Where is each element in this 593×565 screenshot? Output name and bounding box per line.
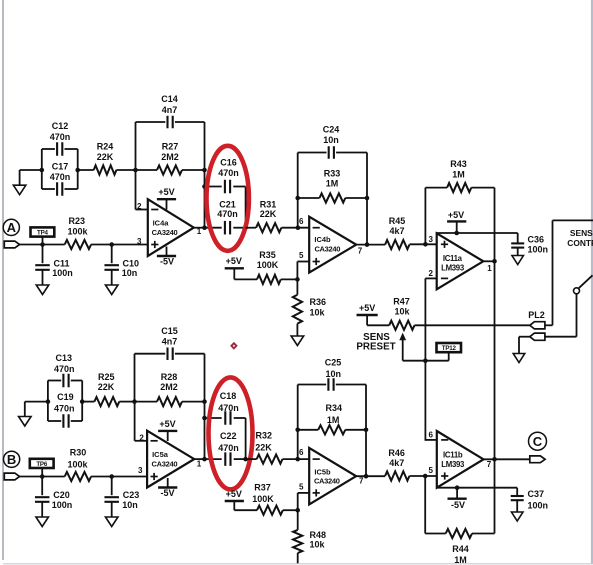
junction IC11b output xyxy=(492,457,497,462)
connector PL2 pin 1 xyxy=(530,322,545,329)
svg-text:IC4b: IC4b xyxy=(314,235,331,244)
junction R35/R36 xyxy=(295,277,300,282)
wire R33 right xyxy=(345,197,367,199)
junction B/C20 xyxy=(40,474,45,479)
ground below C20 xyxy=(36,517,49,527)
junction C21 right xyxy=(243,225,248,230)
IC5b pin 7 label xyxy=(359,477,364,486)
IC11a labels xyxy=(441,254,465,273)
resistor R48 xyxy=(293,530,302,553)
R25 labels xyxy=(98,372,115,392)
svg-text:CONTRO: CONTRO xyxy=(567,238,593,248)
svg-text:PL2: PL2 xyxy=(528,310,545,320)
C12 labels xyxy=(50,121,71,142)
svg-text:6: 6 xyxy=(299,448,304,457)
IC5b labels xyxy=(314,467,340,485)
svg-text:R28: R28 xyxy=(161,372,178,382)
svg-text:LM393: LM393 xyxy=(441,460,465,469)
junction wiper/reference xyxy=(423,358,428,363)
wire R30 to IC5a pin3 xyxy=(91,476,147,478)
page border right xyxy=(591,0,593,564)
op-amp IC5b xyxy=(309,448,356,505)
svg-text:PRESET: PRESET xyxy=(356,341,395,352)
svg-text:2M2: 2M2 xyxy=(161,152,179,162)
svg-text:2M2: 2M2 xyxy=(160,382,178,392)
svg-text:22K: 22K xyxy=(255,442,272,452)
R46 labels xyxy=(388,448,405,468)
IC4a pin 3 label xyxy=(137,237,142,246)
svg-text:A: A xyxy=(7,220,17,235)
svg-text:-5V: -5V xyxy=(160,257,174,267)
capacitor C14 xyxy=(136,116,205,170)
IC5a pin 2 label xyxy=(139,434,144,443)
R34 labels xyxy=(326,403,343,425)
svg-text:+5V: +5V xyxy=(158,187,174,197)
IC11b pin 5 label xyxy=(429,466,434,475)
wire R28 to right node xyxy=(182,401,205,403)
svg-text:10n: 10n xyxy=(323,135,339,145)
junction IC5b pin6 xyxy=(295,457,300,462)
svg-text:100n: 100n xyxy=(528,245,549,255)
R33 labels xyxy=(324,169,341,189)
junction IC4a output xyxy=(202,225,207,230)
junction C10 node xyxy=(109,242,114,247)
svg-text:4k7: 4k7 xyxy=(389,458,404,468)
capacitor C23 xyxy=(104,477,119,518)
resistor R31 xyxy=(256,223,281,232)
svg-text:100n: 100n xyxy=(52,500,73,510)
red circle highlight C16/C21 xyxy=(207,146,249,251)
junction R27 right xyxy=(202,168,207,173)
wire reference vertical xyxy=(424,278,426,440)
capacitor C25 xyxy=(298,378,366,476)
junction +5V rail xyxy=(454,231,459,236)
test point TP4 xyxy=(31,227,55,244)
IC4b pin 5 label xyxy=(299,251,304,260)
ground below C37 xyxy=(511,512,523,521)
svg-text:C12: C12 xyxy=(52,121,69,131)
resistor R32 xyxy=(257,455,283,464)
svg-text:2: 2 xyxy=(139,434,144,443)
sens control box edge xyxy=(553,220,593,325)
svg-text:IC5a: IC5a xyxy=(152,450,169,459)
wire R45 to pin3 xyxy=(409,243,436,245)
R32 labels xyxy=(255,430,272,452)
wire R34 left xyxy=(298,429,319,431)
svg-text:CA3240: CA3240 xyxy=(152,459,178,468)
IC5b plus xyxy=(313,489,320,496)
wire R24 to node xyxy=(116,169,135,171)
svg-text:R25: R25 xyxy=(98,372,115,382)
svg-text:R36: R36 xyxy=(310,297,327,307)
wire +5V rail to C36 xyxy=(437,232,518,234)
R23 labels xyxy=(67,216,88,236)
svg-text:3: 3 xyxy=(137,237,142,246)
wire IC11b pin6 xyxy=(425,439,436,441)
svg-text:470n: 470n xyxy=(218,168,239,178)
svg-text:C24: C24 xyxy=(323,125,340,135)
wire R32 to pin6 xyxy=(283,458,310,460)
svg-text:C18: C18 xyxy=(220,391,237,401)
wire IC11a pin2 xyxy=(425,277,436,279)
svg-text:R37: R37 xyxy=(254,482,271,492)
R30 labels xyxy=(67,448,88,470)
wire comparator bus xyxy=(494,261,496,459)
IC11b -5V supply xyxy=(448,488,467,511)
svg-text:1M: 1M xyxy=(452,170,465,180)
switch contact xyxy=(574,275,593,294)
wire R37 to junction xyxy=(283,509,298,511)
wire C12/C17 to R24 xyxy=(78,169,94,171)
IC5a labels xyxy=(152,450,178,468)
resistor R23 xyxy=(65,240,91,249)
capacitor C19 xyxy=(48,414,82,428)
svg-text:LM393: LM393 xyxy=(441,263,465,272)
R36 labels xyxy=(310,297,327,317)
page border left xyxy=(2,0,4,560)
resistor R24 xyxy=(94,165,117,174)
IC4a plus xyxy=(151,241,158,248)
ground below C36 xyxy=(512,256,524,265)
IC4b pin 6 label xyxy=(299,217,304,226)
wire IC11a output xyxy=(483,260,494,262)
IC4a -5V supply xyxy=(157,247,176,267)
svg-text:100n: 100n xyxy=(528,500,549,510)
svg-text:C15: C15 xyxy=(161,326,178,336)
svg-text:C25: C25 xyxy=(325,358,342,368)
R44 labels xyxy=(452,544,469,565)
IC4b labels xyxy=(314,235,340,254)
ground at C13/C19 xyxy=(19,417,32,427)
test point TP6 xyxy=(30,459,54,477)
test point TP12 xyxy=(437,343,462,361)
IC11b pin 7 label xyxy=(487,460,492,469)
IC5b minus xyxy=(313,458,320,460)
capacitor C15 xyxy=(135,347,205,401)
IC5a pin 1 label xyxy=(197,459,202,468)
resistor R37 xyxy=(257,506,283,515)
svg-text:1M: 1M xyxy=(454,555,467,565)
svg-text:R46: R46 xyxy=(388,448,405,458)
wire R25 to node xyxy=(119,401,134,403)
svg-text:+5V: +5V xyxy=(448,210,464,220)
svg-text:10n: 10n xyxy=(122,268,138,278)
svg-text:C: C xyxy=(533,434,543,449)
junction R37/R48 xyxy=(295,508,300,513)
capacitor C17 xyxy=(42,182,78,196)
svg-text:R23: R23 xyxy=(69,216,86,226)
capacitor C20 xyxy=(35,477,50,518)
C19 labels xyxy=(54,392,75,413)
red circle highlight C18/C22 xyxy=(209,377,253,489)
svg-text:7: 7 xyxy=(359,477,364,486)
svg-text:CA3240: CA3240 xyxy=(314,244,340,253)
svg-text:5: 5 xyxy=(429,466,434,475)
IC11a +5V supply xyxy=(447,210,466,233)
svg-text:CA3240: CA3240 xyxy=(152,228,178,237)
svg-text:IC5b: IC5b xyxy=(314,467,331,476)
wire PL2 pin2 to ground xyxy=(519,337,530,354)
svg-text:R32: R32 xyxy=(256,430,273,440)
svg-text:CA3240: CA3240 xyxy=(314,477,340,486)
page border bottom xyxy=(3,563,593,565)
junction IC11b pin5 xyxy=(423,474,428,479)
R31 labels xyxy=(260,200,277,219)
svg-text:C13: C13 xyxy=(56,353,73,363)
capacitor C11 xyxy=(35,245,50,286)
wire node to R27 xyxy=(136,169,158,171)
ground below PL2 xyxy=(513,354,525,363)
svg-text:C22: C22 xyxy=(220,431,237,441)
IC5a minus xyxy=(151,440,158,442)
node C xyxy=(529,432,547,450)
resistor R36 xyxy=(293,295,302,324)
svg-text:-5V: -5V xyxy=(160,488,174,498)
IC11a minus xyxy=(441,277,448,279)
C23 labels xyxy=(122,490,139,510)
ground at C12/C17 xyxy=(13,185,26,195)
IC11b labels xyxy=(441,450,465,469)
svg-text:1M: 1M xyxy=(326,179,339,189)
svg-text:22K: 22K xyxy=(97,152,114,162)
svg-text:7: 7 xyxy=(487,460,492,469)
svg-text:R35: R35 xyxy=(259,250,276,260)
resistor R34 xyxy=(318,425,345,434)
junction R25/R28/C15 xyxy=(132,399,137,404)
svg-text:5: 5 xyxy=(299,251,304,260)
IC5b pin 5 label xyxy=(299,482,304,491)
svg-text:R43: R43 xyxy=(450,159,467,169)
svg-text:R33: R33 xyxy=(324,169,341,179)
svg-text:470n: 470n xyxy=(218,443,239,453)
junction C23 node xyxy=(109,474,114,479)
svg-text:C11: C11 xyxy=(53,258,69,268)
svg-text:+5V: +5V xyxy=(226,256,242,266)
junction R34 right xyxy=(364,428,369,433)
op-amp IC4b xyxy=(309,217,356,273)
wire C13/C19 to R25 xyxy=(82,401,94,403)
junction R34 left xyxy=(295,428,300,433)
junction C16 tap xyxy=(202,184,207,189)
R37 labels xyxy=(252,482,274,504)
C16 labels xyxy=(218,158,239,178)
svg-text:10k: 10k xyxy=(394,306,410,316)
IC5a plus xyxy=(151,473,158,480)
wire R23 to IC4a pin3 xyxy=(91,244,148,246)
svg-text:R24: R24 xyxy=(97,142,114,152)
wire IC4b pin5 xyxy=(297,262,309,280)
wire ground to C12/C17 left xyxy=(20,170,42,185)
R24 labels xyxy=(97,142,114,163)
svg-text:C20: C20 xyxy=(53,490,70,500)
wire IC11b output xyxy=(484,458,530,460)
wire C21 to R31 xyxy=(246,227,257,229)
svg-text:TP6: TP6 xyxy=(36,461,48,468)
svg-text:-5V: -5V xyxy=(451,500,465,510)
IC5a -5V supply xyxy=(158,478,177,498)
svg-text:1: 1 xyxy=(487,264,492,273)
IC11a pin 1 label xyxy=(487,264,492,273)
SENS PRESET label xyxy=(356,332,395,352)
svg-text:10k: 10k xyxy=(310,539,326,549)
IC4a minus xyxy=(151,209,158,211)
capacitor C10 xyxy=(104,245,119,286)
svg-text:1: 1 xyxy=(197,459,202,468)
svg-text:+5V: +5V xyxy=(226,489,242,499)
svg-text:R27: R27 xyxy=(162,142,179,152)
svg-text:R47: R47 xyxy=(393,297,410,307)
resistor R43 loop xyxy=(425,188,494,262)
wire R35 to junction xyxy=(281,278,298,280)
svg-text:100K: 100K xyxy=(257,260,279,270)
svg-text:R34: R34 xyxy=(326,403,343,413)
junction C12/C17 left xyxy=(40,168,45,173)
wire -5V rail to C37 xyxy=(437,487,517,489)
wire IC5b pin5 xyxy=(298,493,310,510)
R27 labels xyxy=(161,142,179,163)
resistor R25 xyxy=(94,397,119,406)
ground below C10 xyxy=(105,285,118,295)
svg-text:SENSIT: SENSIT xyxy=(570,228,593,238)
wire R31 to pin6 xyxy=(281,227,309,229)
op-amp IC11b xyxy=(437,431,484,488)
R35 +5V supply xyxy=(225,256,257,279)
svg-text:IC11b: IC11b xyxy=(443,450,463,459)
capacitor C24 xyxy=(298,146,367,244)
svg-text:10n: 10n xyxy=(325,369,341,379)
svg-text:TP4: TP4 xyxy=(37,229,49,236)
svg-text:C37: C37 xyxy=(528,489,545,499)
IC4b plus xyxy=(313,258,320,265)
wire IC5a pin2 xyxy=(135,402,148,441)
svg-text:2: 2 xyxy=(429,269,434,278)
svg-text:3: 3 xyxy=(138,466,143,475)
wire R33 left xyxy=(298,197,320,199)
C11 labels xyxy=(52,258,73,278)
junction IC4b output xyxy=(365,242,370,247)
R37 +5V supply xyxy=(225,489,257,510)
IC4b minus xyxy=(313,227,320,229)
svg-text:R45: R45 xyxy=(389,216,406,226)
wire R46 to pin5 xyxy=(409,475,436,477)
R47 +5V supply xyxy=(357,303,390,325)
wire PL2 pin1 to box xyxy=(545,324,552,326)
svg-text:C19: C19 xyxy=(57,392,74,402)
svg-text:470n: 470n xyxy=(54,404,75,414)
svg-text:4n7: 4n7 xyxy=(162,105,178,115)
C37 labels xyxy=(528,489,549,510)
capacitor C37 xyxy=(511,488,524,512)
svg-text:470n: 470n xyxy=(218,403,239,413)
C20 labels xyxy=(52,490,73,510)
svg-text:IC11a: IC11a xyxy=(443,254,463,263)
junction IC5b output xyxy=(364,474,369,479)
resistor R27 xyxy=(157,165,182,174)
wire R36 to ground xyxy=(296,324,298,336)
svg-text:100k: 100k xyxy=(67,227,88,237)
R47 wiper arrow xyxy=(399,333,448,361)
R45 labels xyxy=(389,216,406,236)
IC4a labels xyxy=(152,219,178,237)
svg-text:470n: 470n xyxy=(50,172,71,182)
junction C13/C19 right xyxy=(80,399,85,404)
svg-text:R30: R30 xyxy=(70,448,87,458)
IC11b plus xyxy=(441,472,448,479)
svg-text:C23: C23 xyxy=(123,490,140,500)
svg-text:7: 7 xyxy=(358,247,363,256)
svg-text:C14: C14 xyxy=(161,94,178,104)
junction -5V rail xyxy=(455,485,460,490)
svg-text:100k: 100k xyxy=(67,459,88,469)
wire junction to R36 xyxy=(296,279,298,294)
resistor R47 xyxy=(389,321,414,330)
junction IC11a output xyxy=(492,259,497,264)
op-amp IC4a xyxy=(148,199,194,256)
op-amp IC5a xyxy=(147,431,194,488)
IC4a pin 1 label xyxy=(197,227,202,236)
wire IC4a pin2 xyxy=(136,170,148,210)
R28 labels xyxy=(160,372,178,392)
input connector B xyxy=(4,473,19,480)
ground below R36 xyxy=(291,336,304,346)
capacitor C22 xyxy=(205,452,246,466)
junction C18 tap xyxy=(202,416,207,421)
junction C13/C19 left xyxy=(46,399,51,404)
junction A/C11 xyxy=(40,242,45,247)
ground below C11 xyxy=(36,285,49,295)
junction R28 right xyxy=(202,399,207,404)
SENS CONTR label xyxy=(567,228,593,248)
junction IC4b pin6 xyxy=(296,225,301,230)
resistor R44 xyxy=(446,529,472,538)
svg-text:6: 6 xyxy=(429,431,434,440)
C10 labels xyxy=(122,258,139,278)
svg-text:TP12: TP12 xyxy=(442,345,457,352)
svg-text:R44: R44 xyxy=(452,544,469,554)
C25 labels xyxy=(325,358,342,380)
svg-text:470n: 470n xyxy=(54,364,75,374)
junction R33 right xyxy=(365,196,370,201)
svg-text:IC4a: IC4a xyxy=(153,219,170,228)
C22 labels xyxy=(218,431,239,453)
svg-text:5: 5 xyxy=(299,482,304,491)
output connector C xyxy=(530,456,545,463)
IC11b minus xyxy=(441,439,448,441)
red diamond mark xyxy=(231,343,236,348)
svg-text:470n: 470n xyxy=(217,209,238,219)
svg-text:1M: 1M xyxy=(327,415,340,425)
svg-text:100n: 100n xyxy=(52,268,73,278)
svg-text:+5V: +5V xyxy=(159,419,175,429)
svg-text:10k: 10k xyxy=(310,307,326,317)
junction C12/C17 right xyxy=(75,168,80,173)
node B xyxy=(4,451,20,467)
capacitor C16 xyxy=(205,180,246,228)
svg-text:+5V: +5V xyxy=(359,303,375,313)
resistor R43 xyxy=(447,183,471,192)
IC4b pin 7 label xyxy=(358,247,363,256)
capacitor C36 xyxy=(511,233,524,256)
resistor R33 xyxy=(320,193,346,202)
C17 labels xyxy=(50,161,71,182)
IC5b pin 6 label xyxy=(299,448,304,457)
C24 labels xyxy=(323,125,340,145)
wire ground to C13/C19 left xyxy=(25,402,48,417)
svg-text:C17: C17 xyxy=(52,161,69,171)
IC11a pin 3 label xyxy=(429,235,434,244)
resistor R46 xyxy=(385,471,409,480)
PL2 label xyxy=(528,310,545,320)
